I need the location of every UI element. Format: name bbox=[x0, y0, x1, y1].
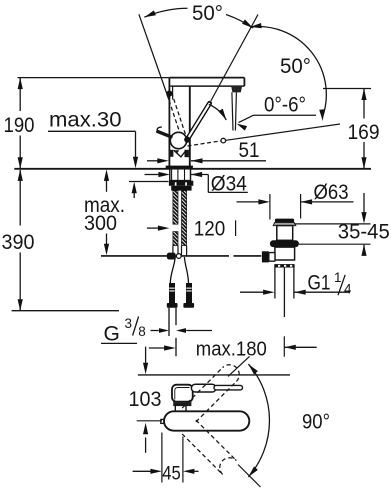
left hose connector bbox=[169, 283, 175, 303]
0-6 left arrowhead bbox=[218, 109, 226, 120]
arc1 left arrowhead bbox=[144, 10, 156, 17]
max.30 lower arrow tail bbox=[133, 188, 135, 198]
top view spout capsule bbox=[164, 411, 249, 430]
pop-up rod joint circle bbox=[176, 254, 181, 259]
spout capsule left nub bbox=[161, 419, 164, 423]
left hose tail line 1 bbox=[168, 308, 170, 336]
arc1 right arrowhead bbox=[242, 19, 253, 28]
top view lever stick bbox=[214, 385, 243, 390]
0-6 leader line bbox=[254, 114, 317, 116]
lever handle outline bbox=[188, 103, 210, 138]
right hose line bbox=[184, 257, 188, 283]
arc2 bottom arrowhead bbox=[319, 109, 324, 121]
tailpipe right edge bbox=[293, 268, 295, 299]
O34 label underline bbox=[208, 191, 248, 193]
O63 left arrow tail bbox=[237, 201, 260, 203]
dashed spout capsule down end cap bbox=[220, 458, 237, 475]
nut band notch 2 bbox=[284, 265, 286, 267]
spout outlet (mousseur) bbox=[231, 87, 242, 93]
drain upper body bbox=[277, 226, 293, 241]
svg-text:8: 8 bbox=[138, 324, 146, 339]
drain rod connector white bbox=[269, 253, 275, 262]
O63 extension line right bbox=[300, 194, 302, 219]
50deg arc 2 bbox=[250, 26, 326, 118]
pop-up rod knob bbox=[167, 253, 176, 260]
svg-text:G1: G1 bbox=[308, 271, 331, 294]
103 arrow down bbox=[143, 363, 148, 375]
drain plug cap bbox=[275, 219, 294, 223]
lever open position dashed line bbox=[188, 141, 222, 146]
dashed spout capsule up end cap bbox=[223, 365, 240, 382]
390 bottom reference line bbox=[12, 310, 119, 312]
hatched tube wall right bbox=[182, 191, 187, 246]
mounting nut bbox=[169, 181, 193, 186]
top view body base dark band bbox=[173, 401, 191, 406]
right hose cap bbox=[183, 303, 194, 308]
lever axis extension line left (50deg) bbox=[139, 14, 169, 100]
svg-text:169: 169 bbox=[348, 121, 380, 144]
tube right outer line below hatch bbox=[186, 246, 188, 256]
dim 190 arrow up bbox=[18, 78, 23, 90]
max300 line lower bbox=[106, 234, 108, 245]
right hose connector bbox=[186, 283, 192, 303]
arc2 top arrowhead bbox=[250, 23, 262, 28]
svg-text:Ø63: Ø63 bbox=[314, 181, 349, 204]
O34 label bracket vertical bbox=[207, 175, 209, 193]
deck underside line (max.30 lower) bbox=[129, 181, 169, 183]
169 upper reference line bbox=[323, 88, 371, 90]
spout incline 6deg line bbox=[226, 124, 340, 140]
water stream right line bbox=[235, 92, 236, 130]
51 left arrow tail bbox=[147, 160, 159, 162]
drain rod connector black bbox=[262, 251, 269, 262]
45deg extension line upper bbox=[228, 356, 250, 376]
left hose cap bbox=[167, 303, 178, 308]
top view back reference line bbox=[138, 374, 290, 376]
cartridge V notch outline bbox=[174, 150, 186, 157]
svg-text:max.180: max.180 bbox=[196, 339, 267, 361]
G114 arrow left bbox=[294, 290, 306, 295]
dim 390 arrow down bbox=[18, 299, 23, 311]
G3/8 underline bbox=[101, 342, 137, 344]
max.30 arrow up at deck underside bbox=[132, 182, 137, 194]
dashed spout capsule up edge 1 bbox=[196, 381, 237, 422]
spout top line bbox=[169, 77, 244, 79]
dashed spout capsule up edge 2 bbox=[182, 368, 223, 409]
tube right inner line below hatch bbox=[181, 246, 183, 256]
max180 left arrow tail bbox=[149, 347, 165, 349]
body left edge bbox=[168, 78, 170, 166]
top view lever knob bbox=[191, 384, 216, 392]
lever axis extension line right (50deg) bbox=[211, 15, 258, 102]
max180 arrow left bbox=[284, 345, 296, 350]
lever open knob circle bbox=[221, 138, 226, 143]
35-45 bottom arrow tail bbox=[363, 245, 365, 255]
45deg extension line lower bbox=[238, 465, 261, 488]
0-6 leader left bend bbox=[239, 115, 254, 122]
max180 right arrow tail bbox=[284, 346, 316, 348]
51 arrow right bbox=[157, 158, 169, 163]
threaded shank upper bbox=[170, 169, 191, 181]
45 extension line left bbox=[161, 433, 163, 483]
svg-text:G: G bbox=[104, 322, 120, 345]
tailpipe left edge bbox=[274, 268, 276, 299]
max.30 leader vertical bbox=[135, 131, 137, 158]
50deg arc 1 bbox=[144, 8, 253, 28]
white backing 0-6deg bbox=[262, 96, 308, 113]
nut band notch 1 bbox=[278, 265, 280, 267]
G38 arrow left bbox=[176, 328, 186, 333]
35-45 arrow down bbox=[361, 212, 366, 224]
svg-text:0°-6°: 0°-6° bbox=[264, 94, 306, 117]
drain rod centerline bbox=[283, 268, 285, 318]
G114 left arrow tail bbox=[240, 291, 264, 293]
90deg arc bottom arrowhead bbox=[248, 467, 258, 477]
svg-text:4: 4 bbox=[344, 282, 352, 297]
ball joint circle bbox=[170, 132, 186, 148]
max.30 underline bbox=[48, 130, 136, 132]
cartridge dark flank right bbox=[185, 150, 189, 157]
hatched tube wall left lower bbox=[173, 232, 178, 246]
drain centerline extension upper bbox=[283, 336, 285, 356]
lever lower end cap bbox=[184, 137, 190, 143]
svg-text:1: 1 bbox=[334, 270, 342, 285]
fraction slash 3/8 bbox=[133, 317, 139, 336]
svg-text:45: 45 bbox=[162, 464, 181, 485]
body inner left tick below spout bbox=[172, 86, 174, 99]
90deg arc top arrowhead bbox=[248, 364, 258, 374]
G38 right arrow tail bbox=[186, 330, 212, 332]
nut lower collar bbox=[171, 186, 191, 191]
top view body outline bbox=[172, 385, 193, 402]
O63 extension line left bbox=[269, 194, 271, 220]
O63 arrow left bbox=[301, 199, 313, 204]
max180 arrow right bbox=[164, 345, 176, 350]
45 arrow left bbox=[183, 469, 195, 474]
drain flange ring bbox=[270, 240, 299, 247]
51 arrow tail / label line bbox=[191, 160, 266, 162]
pop-up rod line right part bbox=[234, 255, 262, 257]
svg-text:max.30: max.30 bbox=[49, 108, 122, 131]
dashed lever end cap bbox=[167, 91, 172, 96]
svg-text:90°: 90° bbox=[302, 410, 330, 433]
tube left outer line below hatch bbox=[172, 246, 174, 256]
cartridge pointer triangle bbox=[174, 150, 179, 154]
handle-top reference line (190 upper extension) bbox=[18, 77, 170, 79]
max.30 arrow down at deck bbox=[133, 157, 138, 169]
body base plate bbox=[166, 166, 193, 169]
tick right of 120 bbox=[235, 220, 237, 236]
dim 390 line lower bbox=[19, 253, 21, 311]
svg-text:Ø34: Ø34 bbox=[211, 173, 247, 196]
O34 arrow left bbox=[191, 172, 203, 177]
connector thread marks 1 bbox=[169, 288, 174, 289]
dashed spout capsule down edge 2 bbox=[196, 420, 237, 461]
nut notch 1 bbox=[175, 182, 177, 185]
shank inner line a bbox=[171, 169, 173, 181]
45 left arrow tail bbox=[133, 470, 152, 472]
O34 left arrow tail bbox=[145, 174, 160, 176]
O63 label line bbox=[301, 201, 354, 203]
fraction slash 1/4 bbox=[338, 275, 345, 295]
G38 left arrow tail bbox=[151, 330, 159, 332]
dashed lever edge 2 bbox=[172, 93, 187, 138]
169 arrow up bbox=[361, 89, 366, 101]
dim 190 arrow down bbox=[18, 157, 23, 169]
103 lower reference tick bbox=[137, 420, 162, 422]
top view neck bbox=[175, 405, 186, 412]
0-6 left arc bbox=[209, 104, 227, 120]
svg-text:51: 51 bbox=[239, 139, 260, 162]
O34 right arrow tail bbox=[191, 174, 209, 176]
water stream left line bbox=[232, 92, 233, 130]
O63 arrow right bbox=[258, 199, 270, 204]
lever handle inner white bbox=[188, 104, 209, 138]
103 top arrow tail bbox=[145, 347, 147, 364]
svg-text:3: 3 bbox=[125, 316, 133, 331]
120 arrow right bbox=[158, 226, 170, 231]
drain nut band bbox=[274, 264, 294, 267]
nut band notch 3 bbox=[290, 265, 292, 267]
svg-text:120: 120 bbox=[194, 218, 226, 241]
90deg swivel arc bbox=[248, 364, 269, 477]
connector thread marks 2 bbox=[186, 288, 191, 289]
svg-text:50°: 50° bbox=[280, 55, 311, 78]
svg-text:300: 300 bbox=[84, 212, 117, 235]
dim 390 arrow up bbox=[18, 169, 23, 181]
pop-up rod line left part bbox=[101, 255, 229, 257]
O34 arrow right bbox=[158, 172, 170, 177]
103 bottom arrow tail bbox=[145, 438, 147, 453]
103 arrow up bbox=[143, 423, 148, 435]
side hook thick bar bbox=[158, 132, 171, 137]
35-45 top arrow tail bbox=[363, 193, 365, 213]
body right edge bbox=[189, 86, 191, 166]
shank inner line c bbox=[184, 169, 186, 181]
hatched tube wall left upper bbox=[173, 191, 178, 225]
max300 upper arrow tail bbox=[106, 180, 108, 192]
max300 arrow up bbox=[104, 169, 109, 181]
35-45 upper reference line bbox=[294, 223, 370, 225]
169 dim line lower bbox=[363, 142, 365, 169]
169 dim line upper bbox=[363, 89, 365, 119]
spout underside line bbox=[170, 85, 244, 87]
svg-text:50°: 50° bbox=[192, 2, 223, 25]
dim 390 line upper bbox=[19, 170, 21, 226]
45 arrow right bbox=[150, 469, 162, 474]
left hose tail line 2 upper bbox=[175, 308, 177, 326]
white backing 50deg first bbox=[188, 2, 227, 22]
dashed lever edge 1 bbox=[167, 94, 182, 139]
drain plug rim bbox=[273, 223, 296, 226]
tap centerline extension to top view bbox=[175, 338, 177, 356]
cartridge dark flank left bbox=[169, 150, 174, 157]
dashed spout capsule down edge 1 bbox=[182, 434, 223, 475]
G114 label line bbox=[294, 291, 350, 293]
spout right end bbox=[243, 78, 245, 87]
top view body inner line bbox=[175, 388, 190, 400]
35-45 lower reference line bbox=[299, 243, 371, 245]
side hook curl bbox=[157, 127, 162, 131]
dim 190 line lower bbox=[19, 136, 21, 169]
51 arrow left bbox=[191, 158, 203, 163]
nut notch 2 bbox=[185, 182, 187, 185]
svg-text:190: 190 bbox=[4, 114, 35, 137]
35-45 arrow up bbox=[361, 244, 366, 256]
shank inner line b bbox=[177, 169, 179, 181]
0-6 arrow left-down bbox=[237, 124, 248, 131]
45 right arrow tail bbox=[193, 470, 198, 472]
svg-text:103: 103 bbox=[129, 388, 162, 411]
169 arrow down bbox=[361, 157, 366, 169]
mounting deck surface line bbox=[14, 168, 371, 170]
max300 arrow down bbox=[104, 244, 109, 256]
drain lower body bbox=[275, 247, 295, 260]
G114 arrow right bbox=[263, 290, 275, 295]
tube left inner line below hatch bbox=[177, 246, 179, 256]
dim 190 line upper bbox=[19, 78, 21, 111]
G38 arrow right bbox=[159, 328, 169, 333]
left hose line bbox=[170, 257, 175, 283]
120 arrow tail bbox=[147, 227, 159, 229]
svg-text:390: 390 bbox=[2, 231, 35, 254]
45 extension line right bbox=[182, 437, 184, 483]
